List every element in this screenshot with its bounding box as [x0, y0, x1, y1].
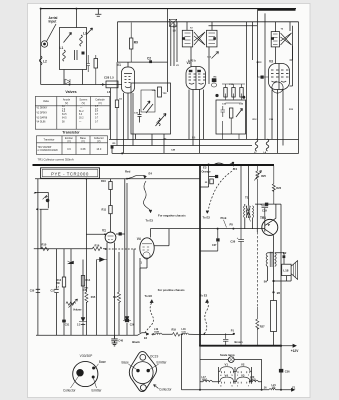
- svg-text:TR1 Collector current 350mA: TR1 Collector current 350mA: [38, 158, 74, 162]
- nodes bottom: [199, 389, 201, 391]
- inner box IF unit: [216, 100, 246, 134]
- wire screen feed: [86, 233, 124, 235]
- svg-text:P1: P1: [231, 329, 235, 333]
- resistor R16: [92, 247, 102, 251]
- resistor R11: [109, 206, 112, 214]
- coil L3: [80, 35, 83, 46]
- svg-text:(V): (V): [67, 140, 71, 143]
- capacitor C41: [223, 333, 228, 345]
- wire speaker bottom: [274, 276, 292, 281]
- svg-text:R19: R19: [172, 329, 177, 332]
- svg-text:L20: L20: [250, 376, 255, 379]
- svg-text:R6: R6: [192, 135, 196, 139]
- IFT T3 winding: [271, 32, 279, 47]
- svg-text:T1: T1: [245, 196, 249, 200]
- svg-text:61.2: 61.2: [79, 111, 84, 113]
- capacitor C36b: [279, 369, 283, 373]
- node: [111, 146, 114, 149]
- svg-text:R17: R17: [113, 296, 118, 299]
- svg-text:100Ω: 100Ω: [202, 379, 208, 381]
- svg-text:For negative chassis: For negative chassis: [158, 213, 186, 217]
- svg-text:C31: C31: [65, 324, 70, 327]
- wire T1 stubs: [241, 166, 252, 229]
- wire AVC bus: [111, 145, 253, 147]
- svg-text:C28 1.5: C28 1.5: [104, 76, 114, 80]
- valve V1: [122, 67, 135, 93]
- heater V2: [235, 367, 252, 373]
- valve V2: [186, 67, 206, 90]
- svg-text:Emitter: Emitter: [157, 360, 168, 364]
- rail drops left: [57, 179, 141, 336]
- coil L1: [63, 50, 66, 61]
- wire E6 wavy: [145, 303, 153, 333]
- wire mid verticals: [177, 22, 253, 139]
- svg-text:TR1: TR1: [260, 216, 266, 220]
- wire V1 anode: [128, 61, 168, 63]
- transistor table text: [38, 137, 104, 152]
- svg-text:R25: R25: [261, 174, 266, 178]
- svg-text:R27: R27: [260, 325, 265, 329]
- svg-text:Valves: Valves: [65, 90, 76, 94]
- svg-text:13.0: 13.0: [96, 148, 101, 151]
- node +12V: [280, 345, 282, 347]
- svg-text:P5: P5: [230, 223, 234, 227]
- terminal A arrow: [101, 84, 105, 86]
- valve V3: [269, 64, 290, 90]
- svg-text:L2: L2: [43, 60, 47, 64]
- coil L21: [269, 389, 276, 390]
- svg-text:C35: C35: [83, 289, 88, 292]
- choke on bus2: [169, 19, 176, 26]
- capacitor C38: [200, 229, 218, 251]
- switch S2 box: [212, 78, 217, 82]
- capacitor C30: [36, 289, 40, 292]
- svg-text:Valve: Valve: [43, 100, 50, 103]
- svg-text:64.5: 64.5: [62, 114, 67, 116]
- resistor R26: [272, 166, 275, 204]
- inner box AM-LW unit: [131, 83, 171, 134]
- coil L17: [203, 380, 212, 382]
- wire driver line: [150, 228, 264, 230]
- svg-text:V3: V3: [269, 60, 273, 64]
- valves table text: [37, 99, 106, 124]
- valve V4: [140, 238, 154, 258]
- node bus joints: [40, 8, 42, 10]
- resistor R19: [173, 333, 180, 337]
- coil L19: [156, 333, 162, 334]
- svg-text:C29: C29: [262, 208, 267, 212]
- coil L20: [249, 380, 258, 382]
- OC19 hole top: [140, 354, 146, 360]
- svg-text:R10: R10: [42, 243, 47, 247]
- pin emitter dot: [92, 376, 95, 379]
- trimmer C2 arrow: [64, 33, 72, 43]
- heater V4: [219, 377, 236, 383]
- resistor R10b: [109, 182, 112, 190]
- svg-text:V4: V4: [137, 237, 141, 241]
- svg-text:(V): (V): [97, 140, 101, 143]
- wire box drops: [136, 134, 165, 153]
- heater pin digits: [220, 374, 250, 387]
- wire box drops to AGC: [64, 70, 83, 85]
- switch sub-box: [141, 90, 155, 112]
- wire C29 row: [255, 203, 281, 205]
- capacitor C11: [138, 109, 142, 123]
- heater wire lower: [200, 381, 262, 383]
- svg-text:Transistor: Transistor: [43, 138, 54, 141]
- node junction: [69, 84, 71, 86]
- wire bottom rail: [112, 148, 299, 153]
- svg-text:Emitter: Emitter: [92, 389, 103, 393]
- svg-text:(V): (V): [65, 102, 69, 105]
- svg-text:Scale lamp: Scale lamp: [220, 353, 235, 357]
- svg-text:C36: C36: [230, 240, 235, 244]
- svg-text:V1: V1: [102, 229, 106, 233]
- wire cluster stubs: [222, 84, 245, 103]
- svg-text:C2: C2: [147, 57, 151, 61]
- speaker LS1 L18: [282, 264, 291, 275]
- coil L2: [39, 56, 42, 65]
- wire V1 pins: [124, 93, 134, 153]
- jack J1: [34, 179, 48, 210]
- scale lamp: [228, 357, 234, 363]
- capacitor C18: [232, 88, 235, 98]
- wire lamp row: [200, 346, 262, 390]
- IFT T1 winding a: [182, 30, 192, 47]
- svg-text:(V): (V): [81, 140, 85, 143]
- wire +12V arrow: [282, 344, 297, 347]
- OC19 pin emitter: [147, 369, 150, 372]
- svg-text:R10: R10: [101, 179, 106, 183]
- transformer T4: [266, 253, 267, 267]
- node E3: [208, 164, 210, 166]
- transistor TR1: [262, 219, 278, 235]
- wire TR1 collector down: [272, 235, 275, 253]
- capacitor C16: [221, 106, 226, 117]
- svg-text:C31: C31: [51, 290, 56, 293]
- wire top bus 2: [118, 21, 299, 23]
- terminal B2: [283, 255, 286, 258]
- svg-text:0.6: 0.6: [67, 148, 71, 151]
- svg-text:R12: R12: [57, 279, 62, 282]
- svg-text:PYE - TCR2000: PYE - TCR2000: [51, 171, 89, 176]
- svg-text:V2 DF96Y: V2 DF96Y: [37, 113, 48, 115]
- wire To E3 wavy lead: [144, 181, 151, 212]
- capacitor square C42: [215, 175, 218, 178]
- svg-text:To E6: To E6: [145, 294, 153, 298]
- wire IF unit drops: [223, 118, 239, 139]
- core L1: [75, 50, 78, 60]
- wire screen rail: [167, 9, 169, 92]
- node P1: [233, 333, 235, 335]
- svg-text:+12V: +12V: [291, 349, 299, 353]
- capacitor C34: [125, 319, 129, 322]
- svg-text:To E2: To E2: [200, 293, 208, 297]
- valve V1b: [105, 232, 116, 243]
- coil L7: [255, 139, 258, 151]
- svg-text:30.2: 30.2: [79, 118, 84, 120]
- node B5: [272, 291, 274, 293]
- resistor R27: [256, 307, 259, 346]
- svg-text:B4: B4: [264, 280, 268, 284]
- coil L16: [182, 333, 188, 334]
- wire inner top: [118, 22, 175, 66]
- svg-text:R16: R16: [95, 243, 100, 247]
- svg-text:V4 DL96: V4 DL96: [37, 122, 47, 124]
- wire thick HT bar right: [258, 8, 296, 10]
- wire V3 pins: [272, 46, 293, 154]
- resistor R1: [94, 59, 98, 69]
- svg-text:Pink: Pink: [221, 216, 227, 220]
- svg-text:B5: B5: [277, 291, 281, 295]
- ground chassis tick: [76, 9, 101, 28]
- node junctions top rail: [86, 178, 88, 180]
- package OC19 flange: [129, 352, 156, 392]
- svg-text:Brown: Brown: [235, 340, 243, 344]
- capacitor C33: [81, 319, 85, 325]
- svg-text:V1 DK96Y: V1 DK96Y: [37, 108, 48, 110]
- svg-text:Transistor: Transistor: [62, 130, 80, 134]
- svg-text:Input: Input: [49, 20, 58, 24]
- svg-text:(V): (V): [98, 102, 102, 105]
- capacitor C40 ground: [111, 335, 117, 346]
- resistor R12: [62, 277, 65, 287]
- capacitor C31: [54, 289, 58, 292]
- svg-text:or OC81D/OC19/20: or OC81D/OC19/20: [38, 149, 59, 152]
- transformer T1: [244, 206, 245, 218]
- svg-text:R14: R14: [86, 279, 91, 282]
- svg-text:Collector: Collector: [63, 389, 77, 393]
- wire +12V rail: [280, 204, 282, 346]
- pin base dot: [92, 367, 95, 370]
- capacitor C36: [238, 229, 244, 346]
- coil L4 arrow: [156, 114, 167, 127]
- aerial socket A1: [41, 41, 47, 47]
- svg-text:Orange: Orange: [202, 170, 212, 174]
- svg-text:V3: V3: [241, 373, 245, 377]
- heater bars: [219, 367, 252, 384]
- trimmer arrows C9 C10: [143, 101, 153, 113]
- wire V4 anode loop: [150, 229, 169, 246]
- wire V1 stem: [110, 179, 112, 233]
- battery bus left: [36, 333, 146, 336]
- resistor R8: [240, 88, 243, 98]
- svg-text:OC19: OC19: [150, 355, 159, 359]
- wire left aerial rail: [40, 9, 42, 85]
- node: [181, 333, 183, 335]
- wire mid top: [209, 25, 258, 27]
- svg-text:E4: E4: [149, 172, 153, 176]
- transistor table frame: [37, 136, 108, 155]
- svg-text:Black: Black: [132, 340, 140, 344]
- capacitor C3: [87, 55, 91, 72]
- svg-text:R15: R15: [91, 296, 96, 299]
- diode MR4: [68, 261, 74, 264]
- title box PYE TCR2000: [41, 168, 100, 179]
- svg-text:E3: E3: [203, 166, 207, 170]
- coil L4: [158, 118, 160, 126]
- wire V3 aux: [290, 26, 293, 60]
- svg-text:R11: R11: [102, 208, 107, 212]
- svg-text:V1: V1: [117, 63, 121, 67]
- terminal E1 arrow: [146, 333, 155, 336]
- wire AF line: [34, 248, 106, 250]
- diode MR6: [79, 318, 87, 322]
- svg-text:0.68: 0.68: [81, 148, 86, 151]
- resistor R14a: [81, 276, 84, 287]
- svg-text:TR1 V30/30P: TR1 V30/30P: [38, 147, 52, 149]
- svg-text:B2: B2: [283, 251, 287, 255]
- wire E3 branch: [200, 165, 215, 187]
- IFT T1 core: [194, 32, 205, 45]
- wire top bus 1: [41, 8, 296, 10]
- OC19 pin base: [136, 369, 139, 372]
- svg-text:For positive chassis: For positive chassis: [158, 288, 185, 292]
- OC19 can: [132, 362, 153, 384]
- diode MR5: [97, 257, 107, 261]
- node F4: [232, 162, 234, 164]
- resistor R15: [85, 292, 88, 303]
- IFT T3 core: [281, 33, 292, 45]
- wire right screen rail: [257, 9, 259, 139]
- svg-text:64.5: 64.5: [62, 118, 67, 120]
- svg-text:L17: L17: [202, 376, 207, 379]
- node: [104, 233, 106, 235]
- nodes driver line: [217, 228, 219, 230]
- wire lead pair: [38, 192, 41, 335]
- svg-text:(V): (V): [82, 102, 86, 105]
- trimmer arrow in IF unit: [236, 109, 243, 118]
- wire aerial lead: [47, 24, 57, 42]
- wire red E4 wavy: [127, 175, 146, 178]
- pin collector blob: [76, 369, 83, 376]
- IFT T1 winding b: [207, 30, 218, 47]
- svg-text:b P2 b: b P2 b: [188, 59, 196, 63]
- wire C36b drop: [280, 346, 282, 390]
- svg-text:C30: C30: [30, 290, 35, 293]
- wire T1 stubs: [187, 22, 212, 47]
- heater V1: [219, 367, 236, 373]
- valves table frame: [35, 97, 110, 130]
- svg-text:L1: L1: [60, 46, 64, 50]
- wire bottom row: [182, 334, 295, 391]
- diode MR1: [65, 79, 70, 84]
- svg-text:To E2: To E2: [203, 216, 211, 220]
- capacitor squares T1: [183, 37, 186, 40]
- micro labels top section: [113, 28, 294, 154]
- svg-text:C36: C36: [285, 370, 290, 374]
- capacitor square T3: [271, 37, 274, 40]
- resistor R10: [41, 247, 49, 251]
- svg-text:Red: Red: [125, 170, 131, 174]
- resistor R14: [230, 108, 233, 118]
- resistor R9: [130, 38, 133, 49]
- wire hump at F4: [214, 162, 233, 165]
- capacitor C29: [265, 203, 268, 206]
- wire right rail2: [264, 13, 266, 139]
- diode MR7: [123, 317, 131, 321]
- svg-text:V3 DAF96: V3 DAF96: [37, 117, 48, 120]
- wire table side drop: [110, 88, 112, 140]
- volume pot R13: [66, 299, 78, 308]
- wire E2 drop dashed 2: [204, 303, 208, 334]
- svg-text:V1: V1: [225, 363, 229, 367]
- chassis thick rail vertical: [199, 165, 201, 346]
- thick divider rule: [33, 164, 275, 166]
- svg-text:Base: Base: [99, 360, 106, 364]
- wire E2 drop dashed: [209, 165, 234, 211]
- svg-text:Collector: Collector: [159, 387, 173, 391]
- svg-text:L18: L18: [283, 268, 289, 272]
- svg-text:To E3: To E3: [146, 218, 154, 222]
- svg-text:L6: L6: [107, 90, 111, 94]
- resistor small: [210, 179, 214, 184]
- pot R25: [254, 166, 261, 204]
- wire HT rail bus: [109, 139, 299, 141]
- svg-text:V4: V4: [225, 373, 229, 377]
- wire grid dashed: [106, 248, 137, 250]
- svg-text:C37: C37: [212, 244, 217, 247]
- svg-text:V2: V2: [241, 363, 245, 367]
- wire AGC line: [41, 84, 122, 86]
- resistor R22 box: [271, 301, 277, 332]
- filter L6 box: [106, 81, 118, 88]
- wire TR1 emitter up: [273, 204, 276, 220]
- capacitor square in coil box: [82, 52, 85, 55]
- switch S1 arrow: [212, 52, 219, 59]
- wire V4 cathode drop: [140, 258, 147, 333]
- svg-text:Base: Base: [122, 360, 129, 364]
- heater V3: [235, 377, 252, 383]
- resistor R3: [115, 100, 118, 108]
- wire T3 stubs: [276, 22, 290, 64]
- resistor 1.5k TP2: [158, 87, 162, 97]
- svg-text:L3: L3: [83, 32, 87, 36]
- wire bus with L19 R19 L16: [152, 333, 234, 335]
- resistor R17: [117, 292, 120, 303]
- svg-text:100R: 100R: [154, 332, 159, 334]
- svg-text:V30/30P: V30/30P: [80, 354, 93, 358]
- svg-text:C40: C40: [118, 338, 123, 342]
- svg-text:R26: R26: [276, 186, 281, 190]
- wire V2 pins: [189, 90, 204, 154]
- wire emitter chain: [273, 252, 275, 300]
- node C2: [149, 60, 152, 63]
- capacitor square C: [119, 232, 122, 235]
- coil screen box L1 L3: [60, 28, 87, 70]
- OC19 hole bottom: [140, 385, 146, 391]
- resistor R7: [224, 88, 227, 98]
- capacitor square V3 grid: [261, 76, 264, 79]
- battery thick bus: [199, 345, 281, 347]
- wire HT top rail: [35, 178, 200, 180]
- capacitor C32 dark: [62, 320, 66, 323]
- svg-text:100Ω: 100Ω: [250, 379, 256, 381]
- node: [105, 248, 107, 250]
- trimmer C4 arrow: [87, 28, 93, 35]
- svg-text:R9: R9: [134, 41, 138, 45]
- wire V2 top stubs: [191, 47, 209, 84]
- svg-text:C26: C26: [130, 324, 135, 327]
- package V30/30P outline: [73, 361, 98, 386]
- wire far right rail: [298, 22, 300, 154]
- node B4: [272, 280, 274, 282]
- svg-text:Volume: Volume: [73, 309, 82, 312]
- coil L8: [266, 139, 269, 151]
- svg-text:F4: F4: [234, 167, 238, 171]
